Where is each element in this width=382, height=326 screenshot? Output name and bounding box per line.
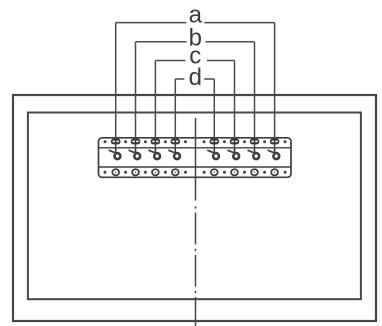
wire d left bbox=[174, 79, 176, 154]
terminal block lower divider bbox=[99, 166, 292, 168]
rivet dot top 7 bbox=[223, 140, 226, 143]
screw terminal S8 bbox=[270, 138, 278, 144]
wire a right bbox=[274, 23, 276, 154]
wire c left bbox=[154, 61, 156, 154]
svg-text:d: d bbox=[189, 64, 202, 91]
wire clamp hook H4 bbox=[169, 149, 180, 160]
rivet dot bottom 6 bbox=[203, 171, 206, 174]
screw terminal S4 bbox=[171, 138, 179, 144]
rivet dot top 2 bbox=[124, 140, 127, 143]
rivet dot bottom 8 bbox=[243, 171, 246, 174]
rivet dot bottom 9 bbox=[263, 171, 266, 174]
leader line a bbox=[116, 22, 275, 24]
rivet dot bottom 4 bbox=[164, 171, 167, 174]
rivet dot top 4 bbox=[164, 140, 167, 143]
lower port O3 bbox=[152, 169, 159, 175]
wire clamp hook H7 bbox=[248, 149, 259, 160]
wire d right bbox=[213, 79, 215, 154]
rivet dot bottom 7 bbox=[223, 171, 226, 174]
wire b right bbox=[254, 42, 256, 154]
rivet dot top 3 bbox=[144, 140, 147, 143]
wire clamp hook H2 bbox=[129, 149, 140, 160]
rivet dot bottom 1 bbox=[104, 171, 107, 174]
rivet dot top 5 bbox=[184, 140, 187, 143]
wire clamp hook H6 bbox=[228, 149, 239, 160]
wire b left bbox=[135, 42, 137, 154]
wire c right bbox=[234, 61, 236, 154]
lower port O2 bbox=[132, 169, 139, 175]
screw terminal S2 bbox=[131, 138, 139, 144]
screw terminal S3 bbox=[151, 138, 159, 144]
lower port O8 bbox=[271, 169, 278, 175]
wire a left bbox=[115, 23, 117, 154]
rivet dot bottom 10 bbox=[284, 171, 287, 174]
screw terminal S7 bbox=[250, 138, 258, 144]
rivet dot bottom 3 bbox=[144, 171, 147, 174]
leader line c bbox=[155, 60, 234, 62]
wire clamp hook H3 bbox=[149, 149, 160, 160]
rivet dot top 10 bbox=[284, 140, 287, 143]
screw terminal S5 bbox=[210, 138, 218, 144]
terminal block body bbox=[99, 138, 292, 178]
lower port O7 bbox=[251, 169, 258, 175]
wire clamp hook H1 bbox=[109, 149, 120, 160]
lower port O4 bbox=[172, 169, 179, 175]
outer enclosure rectangle bbox=[13, 95, 376, 321]
terminal block upper divider bbox=[99, 147, 292, 149]
leader line b bbox=[136, 41, 255, 43]
center line (dash-dot) bbox=[195, 118, 197, 326]
rivet dot top 6 bbox=[203, 140, 206, 143]
lower port O1 bbox=[112, 169, 119, 175]
rivet dot bottom 5 bbox=[184, 171, 187, 174]
wire clamp hook H5 bbox=[208, 149, 219, 160]
screw terminal S6 bbox=[230, 138, 238, 144]
lower port O5 bbox=[211, 169, 218, 175]
rivet dot top 8 bbox=[243, 140, 246, 143]
rivet dot top 1 bbox=[104, 140, 107, 143]
rivet dot top 9 bbox=[263, 140, 266, 143]
lower port O6 bbox=[231, 169, 238, 175]
screw terminal S1 bbox=[112, 138, 120, 144]
rivet dot bottom 2 bbox=[124, 171, 127, 174]
leader line d bbox=[175, 78, 214, 80]
inner panel rectangle bbox=[28, 113, 361, 300]
wire clamp hook H8 bbox=[268, 149, 279, 160]
